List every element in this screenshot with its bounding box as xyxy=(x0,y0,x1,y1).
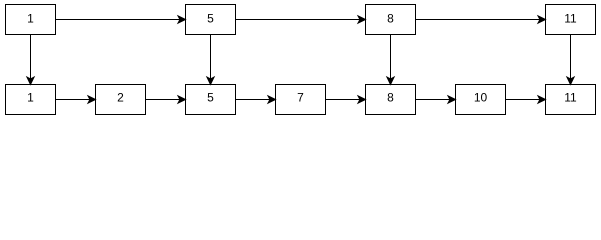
svg-text:8: 8 xyxy=(387,11,394,25)
node top-8 xyxy=(366,5,416,35)
arrow top-11 to bottom-11 xyxy=(567,35,574,85)
node top-11 xyxy=(546,5,596,35)
svg-text:5: 5 xyxy=(207,11,214,25)
svg-text:7: 7 xyxy=(297,91,304,105)
arrow top-1 to top-5 xyxy=(56,16,186,23)
arrow top-5 to top-8 xyxy=(236,16,366,23)
svg-text:1: 1 xyxy=(27,11,34,25)
node top-5 xyxy=(186,5,236,35)
node bottom-2 xyxy=(96,85,146,115)
arrow top-5 to bottom-5 xyxy=(207,35,214,85)
node bottom-5 xyxy=(186,85,236,115)
svg-text:11: 11 xyxy=(564,11,577,25)
arrow bottom-5 to bottom-7 xyxy=(236,96,276,103)
node top-1 xyxy=(6,5,56,35)
node bottom-10 xyxy=(456,85,506,115)
svg-text:2: 2 xyxy=(117,91,124,105)
arrow bottom-1 to bottom-2 xyxy=(56,96,96,103)
node bottom-11 xyxy=(546,85,596,115)
arrow top-8 to top-11 xyxy=(416,16,546,23)
node bottom-8 xyxy=(366,85,416,115)
arrow bottom-8 to bottom-10 xyxy=(416,96,456,103)
svg-text:8: 8 xyxy=(387,91,394,105)
svg-text:1: 1 xyxy=(27,91,34,105)
node bottom-1 xyxy=(6,85,56,115)
svg-text:10: 10 xyxy=(474,91,488,105)
arrow top-8 to bottom-8 xyxy=(387,35,394,85)
svg-text:11: 11 xyxy=(564,91,577,105)
arrow bottom-10 to bottom-11 xyxy=(506,96,546,103)
node bottom-7 xyxy=(276,85,326,115)
arrow bottom-2 to bottom-5 xyxy=(146,96,186,103)
arrow top-1 to bottom-1 xyxy=(27,35,34,85)
arrow bottom-7 to bottom-8 xyxy=(326,96,366,103)
svg-text:5: 5 xyxy=(207,91,214,105)
